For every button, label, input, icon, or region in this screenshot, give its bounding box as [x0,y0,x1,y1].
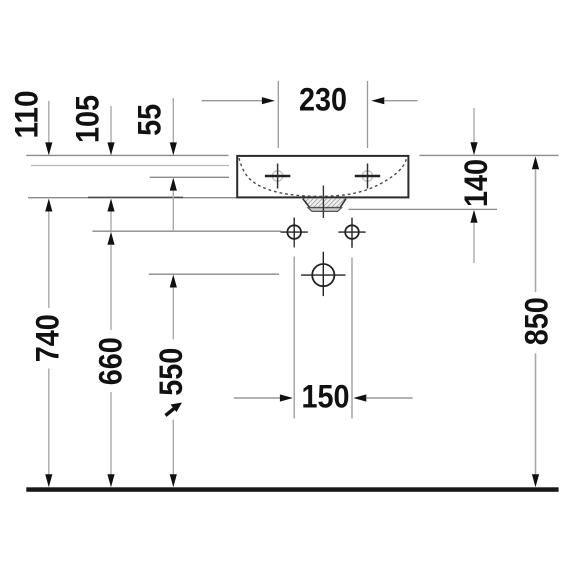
drain circle [312,264,334,286]
dimension 110/740 lower arrow and line [45,199,52,212]
svg-text:55: 55 [132,104,168,136]
floor line [26,487,558,492]
dimension 850 top arrow [532,156,539,169]
230 extension line left [277,81,279,148]
svg-text:110: 110 [8,91,44,139]
150 extension line left [293,240,295,248]
drain reference line (550 level) [149,273,279,275]
dimension 150 right arrow [353,394,366,401]
basin interior profile (dashed) [239,158,407,196]
wall reference line top right segment [420,154,559,156]
dimension 140 top arrow [473,108,475,144]
tap hole right crosshair [355,175,380,177]
dimension 550 top arrow [170,275,177,288]
fixing hole right circle [345,225,359,239]
230 extension line right [367,81,369,148]
svg-text:660: 660 [92,337,128,385]
fixing hole reference line (660 level) [92,230,281,232]
dimension 230 left arrow [202,100,264,102]
svg-text:850: 850 [519,297,555,345]
svg-text:105: 105 [70,95,106,143]
850 floor arrow [532,474,539,487]
tap hole right circle [362,171,372,181]
550 floor arrow [170,474,177,487]
fixing hole left circle [287,225,301,239]
dimension 110 top arrow [48,101,50,143]
150 extension line right [351,240,353,248]
dimension 105 lower arrow [107,199,114,212]
dimension 660 top arrow [107,232,114,245]
darker overlay segment on basin bottom extension [88,196,183,198]
secondary rim reference line [31,165,229,167]
550 leader arrow (northeast) [166,407,177,416]
dimension 105 top arrow [110,106,112,143]
dimension 55 lower arrow [170,178,177,191]
svg-text:740: 740 [30,314,66,362]
drain outlet upper trapezoid with hatch [303,199,346,208]
outlet bottom reference line (140 level) [349,208,498,210]
dimension 55 top arrow [172,98,174,143]
svg-text:550: 550 [153,348,189,396]
drain outlet lower band [308,208,342,212]
55 reference line [150,176,229,178]
outlet centerline [322,186,324,219]
dimension 230 right arrow [371,97,384,104]
660 floor arrow [107,474,114,487]
svg-text:150: 150 [302,379,350,415]
fixing hole right crosshair [338,231,365,233]
drain crosshair [301,274,345,276]
svg-text:230: 230 [299,82,347,118]
fixing hole left crosshair [281,231,308,233]
740 floor arrow [45,474,52,487]
dimension 150 left arrow [234,397,281,399]
wall reference line top left segment (850 rim level) [26,154,228,156]
svg-text:140: 140 [458,159,494,207]
tap hole left circle [272,171,282,181]
dimension 140 bottom arrow [470,210,477,223]
tap hole left crosshair [265,175,290,177]
basin bottom extension line (740 / 110 / 105 level) [28,197,237,199]
washbasin body [237,156,408,198]
